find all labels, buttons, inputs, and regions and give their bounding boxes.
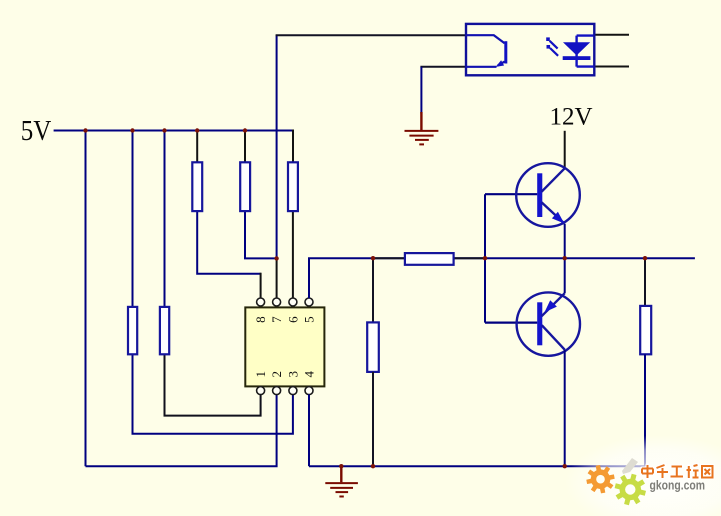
junction dots on ground rail [339, 464, 567, 468]
wire Q2 base [485, 322, 537, 324]
watermark glow [0, 0, 1, 1]
pin opto right top [595, 34, 629, 36]
wire 5V to R5 top [164, 131, 166, 308]
wire opto collector horizontal [276, 34, 466, 36]
resistor R2 [240, 162, 250, 211]
wire R4 bottom to pin3 [133, 354, 293, 434]
junction dots on base rail [371, 256, 647, 260]
resistor R7 [640, 306, 651, 354]
svg-text:7: 7 [269, 316, 284, 323]
pin 8 riser [260, 273, 262, 299]
wire pin4 riser [308, 394, 310, 466]
optocoupler U2 LED [563, 36, 594, 67]
watermark orange gear [586, 465, 614, 493]
junction pin7 node [274, 256, 278, 260]
wire base junction vertical x=485 [484, 194, 486, 322]
chip U1 pin numbers 1 2 3 4 [253, 371, 316, 378]
lead R2 top [244, 131, 246, 164]
wire opto emitter down to ground [420, 67, 422, 114]
wire 5V to R4 top [132, 131, 134, 308]
ground GND2 [325, 483, 358, 496]
svg-text:3: 3 [285, 371, 300, 378]
optocoupler U2 light arrows [546, 37, 558, 55]
resistor R1 [192, 162, 202, 211]
svg-text:5: 5 [302, 316, 317, 323]
wire Q1 base [485, 193, 537, 195]
pin opto emitter horizontal [420, 66, 466, 68]
resistor R4 [128, 307, 137, 354]
pin leads resistor R8 [373, 257, 485, 259]
lead R1 top [196, 131, 198, 164]
resistor R6 [367, 322, 379, 372]
wire R7 top lead [644, 258, 646, 306]
chip U1 body [245, 307, 324, 386]
ground GND2 stub [340, 466, 342, 482]
pin opto right bottom [595, 66, 629, 68]
wire Q1 emitter to rail [564, 224, 566, 258]
wire 5V rail [54, 130, 293, 132]
chip U1 pin numbers 8 7 6 5 [253, 316, 316, 323]
wire Q2 collector down [564, 350, 566, 467]
wire pin5 to base rail [309, 258, 695, 298]
watermark chinese text [642, 465, 713, 478]
svg-text:8: 8 [253, 316, 268, 323]
chip U1 pin circles top [257, 298, 313, 306]
wire 12V to Q1 collector [564, 131, 566, 169]
lead R3 top (5V rail corner) [292, 130, 294, 164]
wire opto input top (corner at 276.6,35.2 down to pin7 node) [276, 35, 278, 258]
wire bottom-left rail to pin2 riser [86, 394, 277, 466]
wire R7 bottom to rail [644, 354, 646, 466]
resistor R8 [405, 253, 454, 265]
wire R2 bottom to node at pin7 [245, 211, 277, 259]
chip U1 pin circles bottom [257, 387, 313, 395]
wire left branch x=85.5 (5V to bottom-left rail) [85, 131, 87, 467]
resistor R5 [160, 307, 169, 354]
resistor R3 [288, 162, 298, 211]
ground GND1 [405, 131, 439, 145]
svg-text:12V: 12V [550, 104, 593, 131]
svg-text:5V: 5V [21, 116, 51, 147]
optocoupler U2 body [466, 24, 594, 75]
transistor Q1 [516, 163, 580, 227]
wire R5 bottom to pin1 [165, 354, 261, 416]
wire R1 bottom to pin8 corner [197, 211, 260, 274]
junction dots on 5V rail [83, 128, 247, 132]
wire pin7 riser [276, 258, 278, 298]
watermark pencil [622, 458, 638, 474]
wire bottom-right ground rail [309, 465, 645, 467]
wire R3 bottom to pin6 [292, 211, 294, 299]
svg-text:1: 1 [253, 371, 268, 378]
svg-text:6: 6 [285, 316, 300, 323]
svg-text:2: 2 [269, 371, 284, 378]
svg-text:gkong.com: gkong.com [650, 479, 706, 493]
ground GND1 stub [420, 112, 422, 130]
wire R6 top lead [372, 258, 374, 322]
transistor Q2 [517, 292, 580, 355]
wire R6 bottom lead [372, 372, 374, 466]
wire Q2 emitter to rail [564, 258, 566, 293]
svg-text:4: 4 [302, 371, 317, 378]
optocoupler U2 phototransistor [466, 35, 507, 67]
watermark green gear [615, 474, 646, 505]
